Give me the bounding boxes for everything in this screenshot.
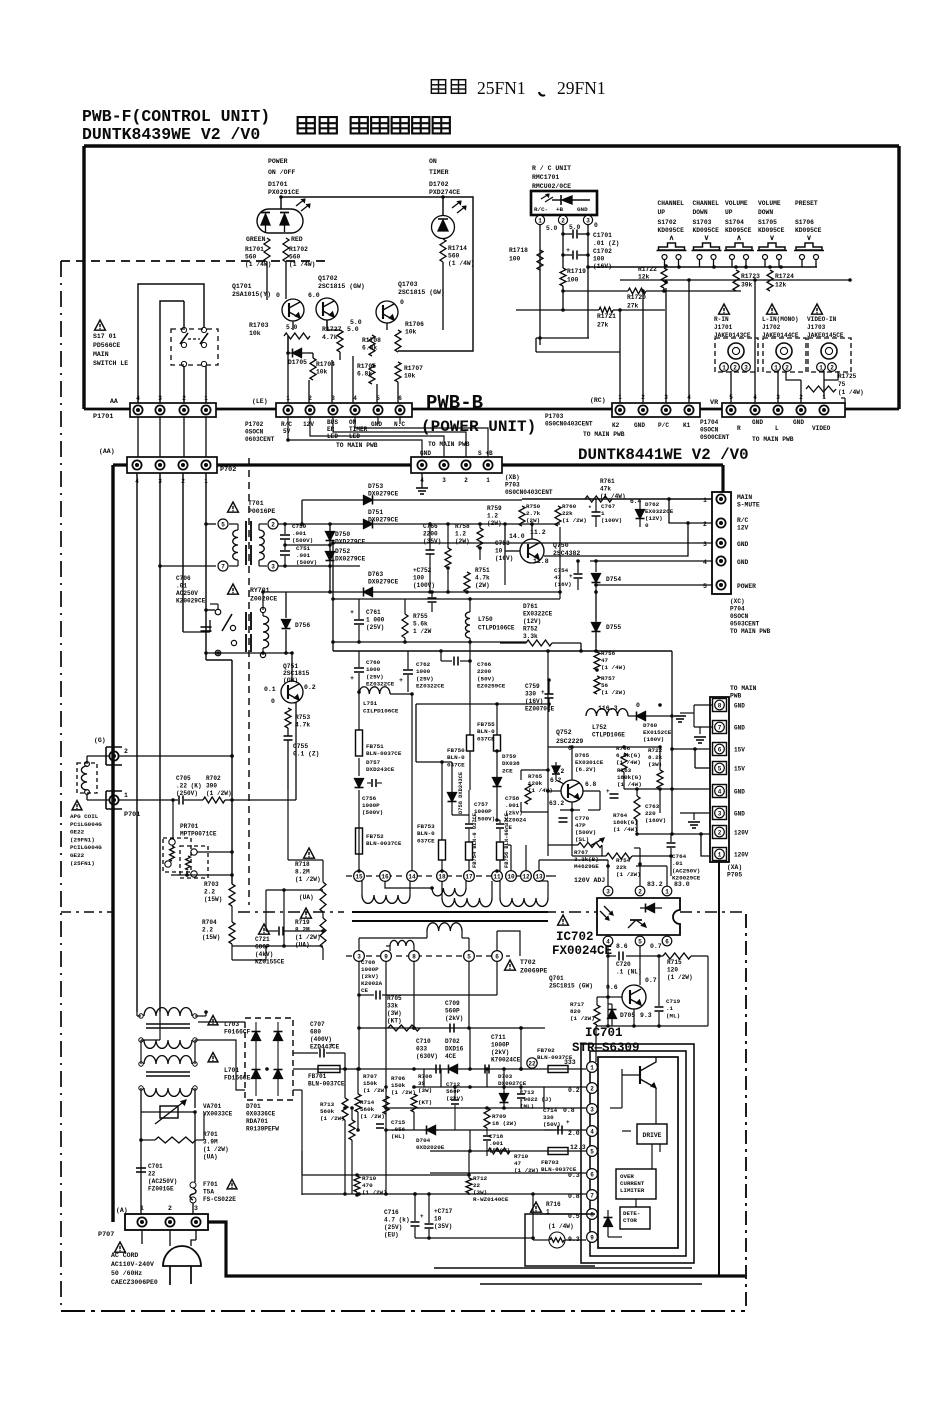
R/C unit box RMC1701 [531,191,597,215]
svg-text:C761: C761 [366,609,381,616]
svg-text:3: 3 [664,394,668,401]
svg-text:(1 /4W): (1 /4W) [448,260,474,267]
svg-text:(2kV): (2kV) [491,1049,509,1056]
svg-text:DOWN: DOWN [758,209,773,216]
svg-text:R1702: R1702 [289,246,308,253]
T702 primary pin rail dash [346,875,552,877]
T702 pin 3b [354,951,365,962]
resistor R1702 [283,238,289,262]
transistor Q1703 [376,301,398,323]
svg-text:SWITCH LE: SWITCH LE [93,360,128,367]
capacitor C754 [569,561,583,590]
svg-text:037CE: 037CE [417,837,435,844]
junction [519,1085,523,1089]
svg-text:C754: C754 [554,567,569,574]
label R755 [413,613,432,635]
T702 secondary pin rail dash [346,955,510,957]
svg-text:K1: K1 [683,422,691,429]
junction [413,1192,417,1196]
svg-text:(1 /4W): (1 /4W) [617,781,642,788]
wire fb751 col [358,694,360,871]
svg-text:+C752: +C752 [413,567,432,574]
svg-text:C755: C755 [293,743,308,750]
jack J1702 pins [772,363,792,372]
svg-text:R706: R706 [391,1075,406,1082]
IC702 pin 2 [635,886,645,896]
wire q-network v6 [376,384,378,404]
wire rail pin5 1151 [430,1150,586,1152]
svg-text:FB703: FB703 [541,1159,559,1166]
svg-text:K2002A: K2002A [361,980,383,987]
resistor R710a body [354,1176,360,1192]
svg-text:D755: D755 [606,624,621,631]
svg-text:(1 /2W): (1 /2W) [514,1167,539,1174]
value 0.7 ic702 [650,943,662,950]
connector P1701 [130,403,216,417]
svg-text:L751: L751 [363,700,378,707]
label S1705 button [758,200,785,234]
svg-text:R753: R753 [295,714,310,721]
svg-text:(1 /4W): (1 /4W) [616,759,641,766]
svg-text:IC702: IC702 [556,930,594,944]
resistor R714 body [349,1120,355,1140]
capacitor C770 [559,818,568,822]
label C715 [391,1119,406,1140]
svg-text:R712: R712 [473,1175,488,1182]
svg-text:R1722: R1722 [638,266,657,273]
svg-text:∧: ∧ [736,235,742,243]
IC702 pin 4 [603,936,613,946]
choke L701 core [146,1072,190,1076]
svg-text:3: 3 [776,394,780,401]
T702 core [352,912,548,921]
boundary dash-dot bottom [61,1310,745,1312]
svg-text:(16V): (16V) [495,555,513,562]
svg-text:(1 /2W): (1 /2W) [206,790,232,797]
svg-text:2SC1815 (GW): 2SC1815 (GW) [318,283,365,290]
label TO MAIN PWB p1702 [336,442,378,449]
warning triangle R719 [301,908,312,918]
svg-text:(1 /4W): (1 /4W) [548,1223,574,1230]
svg-text:∨: ∨ [806,235,812,243]
diode D758 [448,762,470,815]
wire Q750 top [530,522,534,539]
svg-text:PRESET: PRESET [795,200,818,207]
svg-text:1000: 1000 [366,666,381,673]
heading PWB-B [426,392,483,414]
svg-text:R761: R761 [600,478,615,485]
P705 pin 4 [713,785,746,798]
svg-text:BLN-0037CE: BLN-0037CE [366,840,402,847]
switch S1706 [794,243,824,267]
svg-text:+: + [569,573,573,580]
wire rc to p1703 4 [688,280,690,404]
svg-text:10: 10 [434,1216,442,1223]
svg-text:R-IN: R-IN [714,316,729,323]
label R709 [492,1113,517,1127]
power unit inner bottom line B [480,1283,702,1285]
resistor R702 body [203,797,225,803]
wire emitters [293,320,387,330]
label D758 rotated [458,771,464,814]
wire rail 500 [300,500,522,526]
svg-text:(2W): (2W) [487,520,502,527]
resistor R755 body [402,599,408,642]
svg-text:RMCU02/0CE: RMCU02/0CE [532,183,571,190]
T702 pin 16 [380,871,391,882]
wire sec rail 648 [333,650,672,652]
label D759 [502,753,520,774]
label (RC) [590,397,606,404]
svg-text:D757: D757 [366,759,381,766]
svg-text:0503CENT: 0503CENT [730,621,760,628]
T702 winding a [362,881,410,903]
svg-text:D704: D704 [416,1137,431,1144]
IC701 pin 6 [587,1169,598,1180]
svg-text:120V ADJ: 120V ADJ [574,877,605,884]
block OVER CURRENT LIMITER [616,1169,656,1199]
transistor Q1701 [282,299,304,321]
svg-text:83.0: 83.0 [674,881,690,888]
wire R1702 down [285,262,287,299]
wire q-network v7 [397,382,399,404]
resistor R1714 [440,239,446,262]
svg-text:FZ001GE: FZ001GE [148,1186,174,1193]
resistor R719 body [320,918,326,948]
ground symbol P703 [416,473,428,494]
junction [412,1067,416,1071]
svg-text:GND: GND [371,421,382,428]
junction [502,1085,506,1089]
svg-text:2: 2 [590,1085,594,1092]
diode D703 [500,1069,509,1108]
svg-text:S1706: S1706 [795,219,814,226]
svg-text:(35V): (35V) [434,1223,452,1230]
transistor Q752 [561,780,583,802]
connector P705 body [710,697,729,862]
warning triangle J1702 [767,304,778,314]
T701 pin 5 [218,519,228,529]
svg-text:1: 1 [286,395,290,402]
svg-text:(1 /2W): (1 /2W) [360,1113,385,1120]
label C755 [293,743,319,758]
svg-text:GE22: GE22 [70,829,85,836]
svg-text:150k: 150k [391,1082,406,1089]
label D702 [445,1038,464,1060]
svg-text:(AC250V): (AC250V) [148,1178,177,1185]
svg-text:0SOCN: 0SOCN [700,427,719,434]
svg-text:2SA1015(Y): 2SA1015(Y) [232,291,271,298]
svg-text:MAIN: MAIN [737,494,752,501]
svg-text:25FN1: 25FN1 [477,78,526,98]
wire rc to p1703 3 [664,264,668,404]
IC701 pin 1 [587,1062,598,1073]
label R716 wattage [548,1223,574,1230]
wire rail 527 [360,523,560,525]
junction [606,864,610,868]
label VR [710,399,719,407]
junction [658,703,662,707]
label C760 [366,659,395,688]
wire P705 7 gnd [694,727,712,743]
svg-text:+: + [606,788,610,795]
value 6.0 [308,292,320,299]
label R754 [616,857,641,878]
svg-text:R-WZ0140CE: R-WZ0140CE [473,1196,509,1203]
wire pin8 feed [540,1213,586,1215]
label C763 [645,803,666,824]
warning triangle T701 [228,502,239,512]
svg-text:330: 330 [525,691,536,698]
wire rc bottom link [536,336,620,352]
switch S1703 [692,243,722,267]
svg-text:GND: GND [752,419,763,426]
label FX0024CE [552,944,612,958]
junction [135,463,139,467]
svg-text:C764: C764 [672,853,687,860]
svg-text:(3W): (3W) [473,1189,487,1196]
svg-text:75: 75 [838,381,846,388]
value 5.0 q2 [350,319,362,326]
svg-text:5.0: 5.0 [350,319,362,326]
resistor R704 body [229,922,235,944]
svg-text:R760: R760 [562,503,577,510]
svg-text:K20029CE: K20029CE [176,598,206,605]
wire degauss line2 [119,660,234,884]
wire P705 15V b [693,747,710,768]
svg-text:D765: D765 [575,752,590,759]
label P1703 partnum [545,413,593,428]
svg-text:TIMER: TIMER [429,169,449,176]
label 120V ADJ [574,877,605,884]
svg-text:DRIVE: DRIVE [643,1132,662,1139]
svg-text:680P: 680P [255,944,270,951]
svg-text:3: 3 [271,563,275,570]
svg-text:(1 /2W): (1 /2W) [295,934,321,941]
svg-text:VR: VR [710,399,719,407]
label C1702 [593,248,612,270]
wire T702 pin9 down [385,961,387,1194]
junction [453,1085,457,1089]
svg-text:2SC1815: 2SC1815 [283,670,310,677]
wire Q750 emitter [544,521,690,556]
junction [478,546,482,550]
svg-text:+: + [399,677,403,685]
svg-text:100: 100 [413,575,424,582]
wire q752 links [548,745,673,858]
IC701 nested box 3 [581,1044,694,1263]
P704 pin 4 [703,556,726,566]
junction [357,1026,361,1030]
svg-text:1000P: 1000P [361,966,379,973]
svg-text:29FN1: 29FN1 [557,78,606,98]
resistor R712 body [466,1178,472,1193]
junction [204,463,208,467]
label C716 [384,1209,410,1239]
svg-text:0X0336CE: 0X0336CE [246,1111,276,1118]
svg-text:D705: D705 [620,1012,635,1019]
svg-text:R717: R717 [570,1001,585,1008]
svg-text:(1 /4W): (1 /4W) [601,664,626,671]
wire left bus 2 [182,473,184,632]
svg-text:*: * [588,505,592,512]
switch S1702 [657,243,687,267]
wire ic702 row up [596,848,640,866]
fusible FB755 body [494,704,501,753]
svg-text:C709: C709 [445,1000,460,1007]
boundary dash segment 3 [680,911,746,913]
wire sec bank rail 762 [442,761,452,763]
capacitor C759 [541,680,554,712]
svg-text:Q1701: Q1701 [232,283,252,290]
relay RY701 coil [246,607,269,657]
svg-text:(50V): (50V) [477,675,495,682]
svg-text:FX0024CE: FX0024CE [552,944,612,958]
svg-text:2SC1815 (GW): 2SC1815 (GW) [549,983,593,990]
wire bridge out [265,1067,302,1175]
svg-text:FB701: FB701 [308,1073,327,1080]
svg-text:560P: 560P [446,1088,461,1095]
svg-text:22k: 22k [616,864,627,871]
svg-text:S +B: S +B [478,450,493,457]
svg-text:5: 5 [729,394,733,401]
svg-text:0.1: 0.1 [264,686,276,693]
capacitor D757c [367,779,382,787]
svg-text:6.8: 6.8 [585,781,597,788]
label C713 [520,1089,552,1110]
svg-text:PCILG004G: PCILG004G [70,844,102,851]
svg-text:7: 7 [221,563,225,570]
label C767 [601,503,622,524]
svg-text:AC CORD: AC CORD [111,1252,138,1259]
control unit frame right border [897,146,900,409]
svg-text:R/C: R/C [281,421,292,428]
P705 pin 7 [713,721,746,734]
label PR701 [180,823,217,838]
svg-text:T5A: T5A [203,1189,214,1196]
svg-text:R1703: R1703 [249,322,269,329]
svg-text:GND: GND [734,811,745,818]
P705 pin 3 [713,807,746,820]
svg-text:1: 1 [538,217,542,224]
svg-text:POWER: POWER [268,158,288,165]
label C718 [489,1133,510,1154]
svg-text:GND: GND [737,541,749,548]
label R710a [362,1175,387,1196]
svg-text:ON: ON [429,158,437,165]
svg-text:PR701: PR701 [180,823,199,830]
resistor R703 body [229,884,235,906]
svg-text:0603CENT: 0603CENT [245,436,275,443]
wire rail pin4 1130 [386,1129,586,1131]
resistor R722 body [657,770,663,789]
wires P1701 to P702 [138,417,206,457]
svg-text:4: 4 [353,395,357,402]
bridge diode 1 [252,1022,261,1060]
svg-text:037CE: 037CE [477,735,495,742]
P705 pin 8 [713,699,746,712]
wire q-network h2 [308,353,313,358]
resistor R705 body [388,1025,420,1031]
svg-text:BLN-0037CE: BLN-0037CE [308,1081,345,1088]
svg-text:(25V): (25V) [366,624,384,631]
capacitor C712 [451,1087,459,1130]
svg-text:(16V): (16V) [554,581,572,588]
wire rc pin3 down [586,225,590,338]
svg-text:1: 1 [665,888,669,895]
svg-text:3: 3 [590,1106,594,1113]
capacitor C763 [606,788,619,798]
capacitor C751 [280,543,290,566]
value 0 q3 [400,299,404,306]
label R705 [387,995,402,1025]
svg-text:L701: L701 [224,1067,239,1074]
wire c71x bottom [415,1236,535,1240]
junction [357,1192,361,1196]
value 0 l752 [636,702,640,709]
label POWER ON/OFF [268,158,295,176]
label S1701 main switch [93,333,128,367]
svg-text:P1703: P1703 [545,413,564,420]
warning triangle AC [115,1242,126,1252]
wire P705 120V a [670,832,710,836]
svg-text:0.7: 0.7 [645,977,657,984]
svg-text:5.0: 5.0 [546,225,558,232]
svg-text:3: 3 [586,217,590,224]
connector P707 [125,1214,208,1230]
switch S1701 contact A [180,327,188,366]
label (A) [116,1207,128,1214]
label Q701 [549,975,593,990]
svg-text:D753: D753 [368,483,383,490]
svg-text:0.1 (Z): 0.1 (Z) [293,751,319,758]
svg-text:100: 100 [509,256,521,263]
IC702 pin 6 [662,936,672,946]
warning triangle R716 [531,1202,542,1212]
label R1719 [567,268,586,284]
svg-text:333: 333 [564,1059,576,1066]
svg-text:0: 0 [276,292,280,299]
label C756 [362,795,383,816]
wire gnd rail 543 [331,541,714,545]
control unit frame top border [84,144,899,147]
page title hanzi 2 [451,80,465,94]
svg-text:(ML): (ML) [520,1103,534,1110]
IC701 pin 3 [587,1104,598,1115]
label L703 [208,1016,251,1036]
label P702 [220,466,236,474]
label L701 [208,1053,251,1082]
svg-text:(HL): (HL) [391,1133,405,1140]
svg-text:560k: 560k [360,1106,375,1113]
svg-text:2: 2 [785,364,789,371]
svg-text:VIDEO-IN: VIDEO-IN [807,316,837,323]
resistor R758 body [445,522,451,594]
svg-text:(1 /2W): (1 /2W) [295,876,321,883]
label R717 [570,1001,595,1022]
wire stub P1702 pin6 [399,417,401,424]
svg-text:33k: 33k [387,1003,398,1010]
capacitor C716 [411,1194,425,1238]
label C1701 [593,232,619,247]
svg-text:Q751: Q751 [283,663,298,670]
wire q-network v4 [331,360,333,404]
label R1714 [448,245,474,267]
label GREEN [246,236,266,243]
svg-text:+B: +B [556,206,564,213]
label P704 partnum [730,598,771,635]
svg-text:R1718: R1718 [509,247,528,254]
